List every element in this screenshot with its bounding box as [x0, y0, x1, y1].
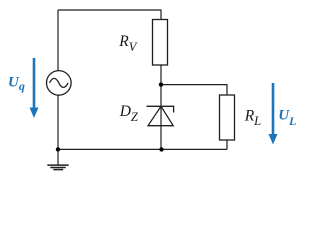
wire middle vertical (R_V bottom to bottom node) [160, 65, 162, 149]
ground [47, 149, 68, 169]
node junction bottom (zener anode) [159, 147, 163, 151]
node junction top (output node) [159, 82, 163, 86]
resistor R_L [220, 95, 235, 140]
wire R_L bottom [226, 140, 228, 149]
wire left vertical lower [57, 95, 59, 149]
zener diode D_Z [147, 106, 174, 125]
wire left vertical upper [57, 10, 59, 71]
source U1 (AC voltage source) [47, 71, 72, 96]
arrow U_L (load voltage) [269, 83, 278, 145]
wire node to R_L top [161, 85, 227, 95]
node junction left (source bottom) [56, 147, 60, 151]
resistor R_V [153, 20, 168, 66]
wire bottom horizontal [58, 148, 227, 150]
wire top horizontal [58, 10, 161, 20]
arrow U_q (source voltage) [30, 58, 39, 118]
